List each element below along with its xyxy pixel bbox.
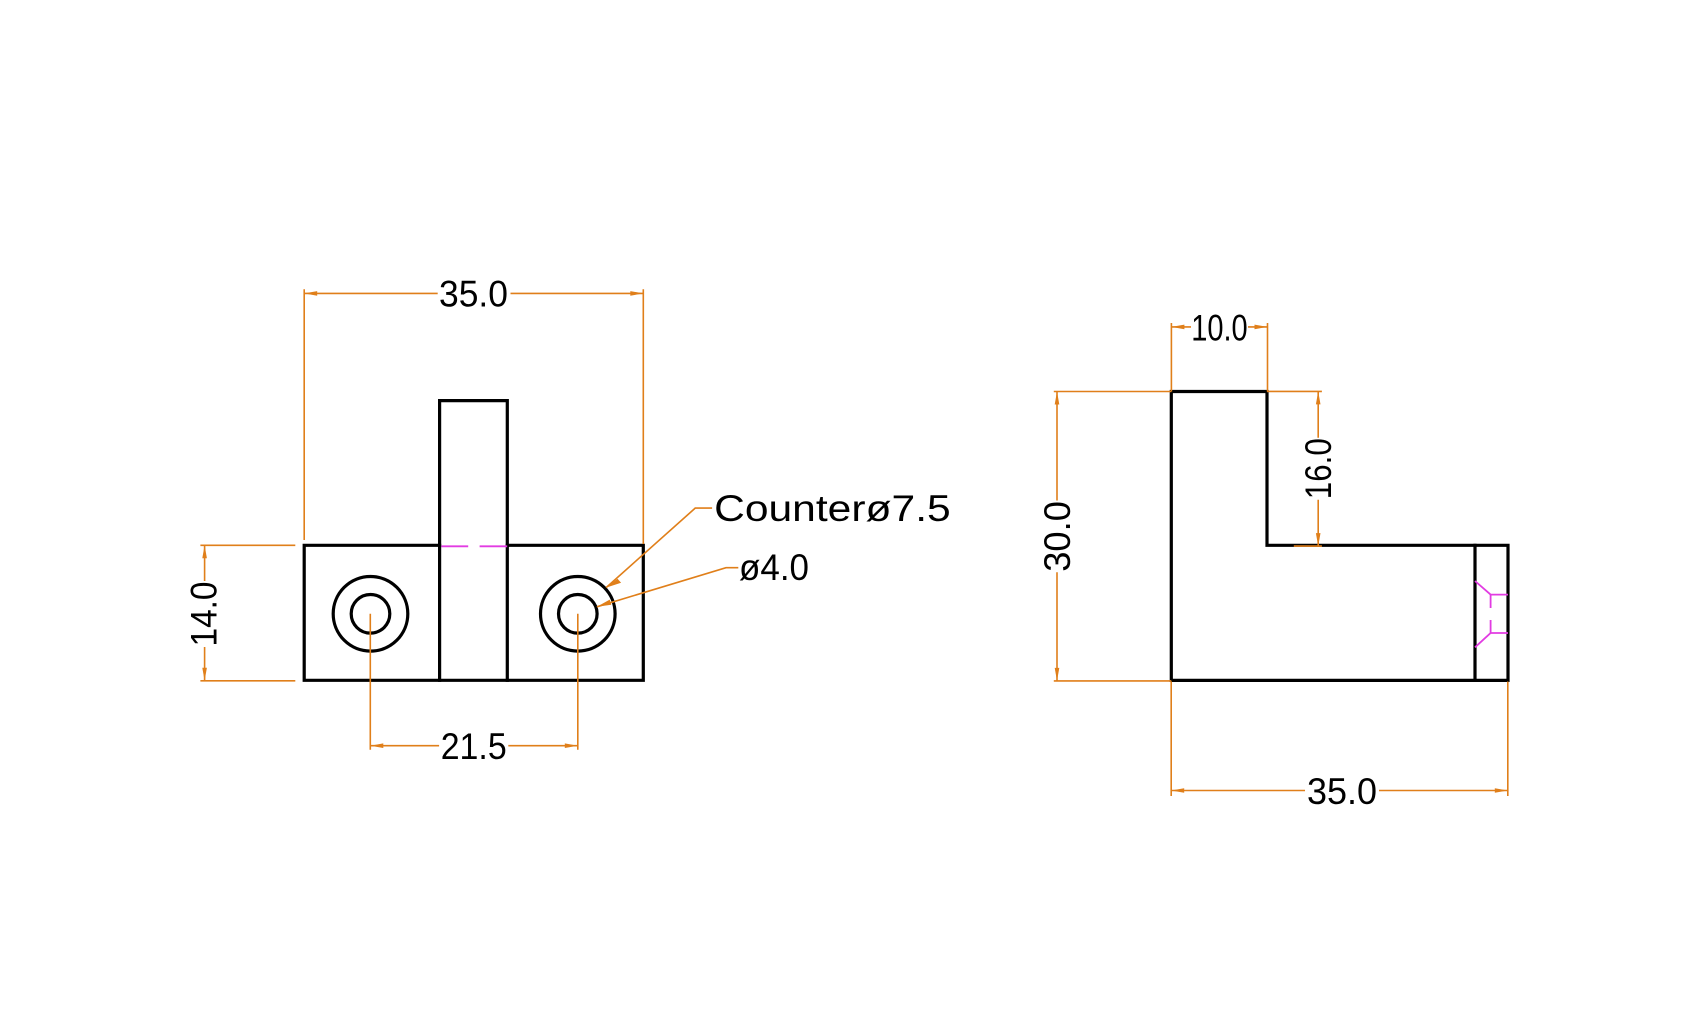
dim 14.0 ext lines bbox=[200, 545, 295, 681]
arrows 10.0 bbox=[1171, 325, 1184, 330]
dim 35.0 line bbox=[304, 292, 643, 294]
leader arrows bbox=[606, 579, 621, 588]
dim 35.0 ext lines bbox=[304, 289, 643, 544]
left hole outer circle bbox=[333, 577, 408, 652]
dim 35.0 ext lines bbox=[1171, 682, 1508, 797]
arrows 35.0 bbox=[304, 291, 317, 296]
dim 16.0 line bbox=[1317, 391, 1319, 546]
arrows 16.0 bbox=[1316, 391, 1321, 404]
leader dia4 bbox=[597, 568, 738, 607]
svg-text:16.0: 16.0 bbox=[1298, 438, 1339, 499]
dim 10.0 line bbox=[1171, 326, 1267, 328]
svg-text:10.0: 10.0 bbox=[1191, 307, 1248, 348]
arrows 21.5 bbox=[370, 743, 383, 748]
counterbore depth line bbox=[1473, 545, 1476, 680]
svg-text:14.0: 14.0 bbox=[184, 582, 225, 647]
orange dimension graphics bbox=[200, 289, 738, 750]
svg-text:35.0: 35.0 bbox=[1307, 771, 1377, 812]
hidden line (magenta) behind tab bbox=[441, 545, 507, 547]
tab outline bbox=[440, 401, 508, 681]
base plate outline bbox=[304, 545, 643, 680]
left hole inner circle bbox=[351, 595, 390, 634]
dim 16.0 ext lines bbox=[1267, 391, 1322, 546]
svg-text:ø4.0: ø4.0 bbox=[739, 547, 809, 588]
right hole inner circle bbox=[559, 595, 598, 634]
leader Counter bbox=[606, 508, 712, 587]
right hole outer circle bbox=[541, 577, 616, 652]
svg-text:Counterø7.5: Counterø7.5 bbox=[714, 488, 951, 529]
arrows 30.0 bbox=[1055, 392, 1060, 405]
dim 30.0 ext lines bbox=[1054, 392, 1172, 681]
dimension texts bbox=[184, 273, 951, 767]
dim 21.5 line bbox=[370, 745, 578, 747]
arrows 35.0 bbox=[1171, 788, 1184, 793]
svg-text:21.5: 21.5 bbox=[441, 726, 507, 767]
dim 14.0 line bbox=[204, 545, 206, 681]
magenta countersink hidden lines bbox=[1475, 581, 1508, 647]
dim 30.0 line bbox=[1056, 392, 1058, 681]
arrows 14.0 bbox=[202, 545, 207, 558]
dim 10.0 ext lines bbox=[1171, 323, 1267, 392]
dim 21.5 ext lines (hole centerlines) bbox=[370, 614, 578, 750]
dim 35.0 line bbox=[1171, 790, 1508, 792]
svg-text:30.0: 30.0 bbox=[1037, 501, 1078, 572]
svg-text:35.0: 35.0 bbox=[439, 273, 508, 314]
L-shape outline bbox=[1171, 392, 1508, 681]
